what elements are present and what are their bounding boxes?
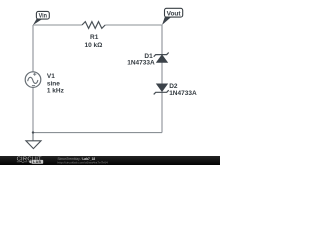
svg-text:10 kΩ: 10 kΩ <box>84 42 102 49</box>
wire bottom segment <box>33 132 162 134</box>
svg-text:sine: sine <box>47 80 60 87</box>
CircuitLab logo squiggle <box>17 161 28 162</box>
CircuitLab logo arrow <box>28 160 31 163</box>
V1 minus sign <box>32 85 35 87</box>
zener diode D2 cathode bar <box>154 90 169 94</box>
svg-text:1 kHz: 1 kHz <box>47 88 65 95</box>
svg-text:Vout: Vout <box>167 10 182 17</box>
svg-text:LAB: LAB <box>33 160 42 164</box>
watermark bar <box>0 156 220 165</box>
ground symbol <box>26 133 41 149</box>
V1 plus sign <box>33 73 36 76</box>
node flag Vin wedge <box>33 19 43 25</box>
voltage source V1 circle <box>25 72 41 88</box>
node flag Vout wedge <box>162 17 171 25</box>
svg-text:Vin: Vin <box>39 13 48 20</box>
zener diode D1 triangle (pointing up) <box>157 55 168 62</box>
wire top-right segment (R1 to node B) <box>105 24 162 26</box>
svg-text:http://circuitlab.com/c6iwa4ra: http://circuitlab.com/c6iwa4ra7e7h64 <box>58 161 108 165</box>
V1 sine wave inside <box>28 77 38 83</box>
wire left vertical lower (V1 to ground node) <box>32 87 34 132</box>
svg-text:V1: V1 <box>47 73 55 80</box>
zener diode D1 cathode bar <box>154 53 169 57</box>
wire right vertical (node B through D1 D2 to bottom) <box>161 25 163 133</box>
svg-text:1N4733A: 1N4733A <box>169 90 197 97</box>
svg-text:1N4733A: 1N4733A <box>127 59 155 66</box>
wire top-left segment (node A to R1) <box>33 24 82 26</box>
node flag Vin box <box>36 11 49 19</box>
node flag Vout box <box>165 8 183 17</box>
zener diode D2 triangle (pointing down) <box>157 84 168 91</box>
wire left vertical upper (node A to V1) <box>32 25 34 72</box>
resistor R1 zigzag <box>82 22 105 29</box>
CircuitLab logo LAB box <box>32 160 44 164</box>
svg-text:R1: R1 <box>90 34 99 41</box>
junction dot at ground node <box>32 131 34 133</box>
